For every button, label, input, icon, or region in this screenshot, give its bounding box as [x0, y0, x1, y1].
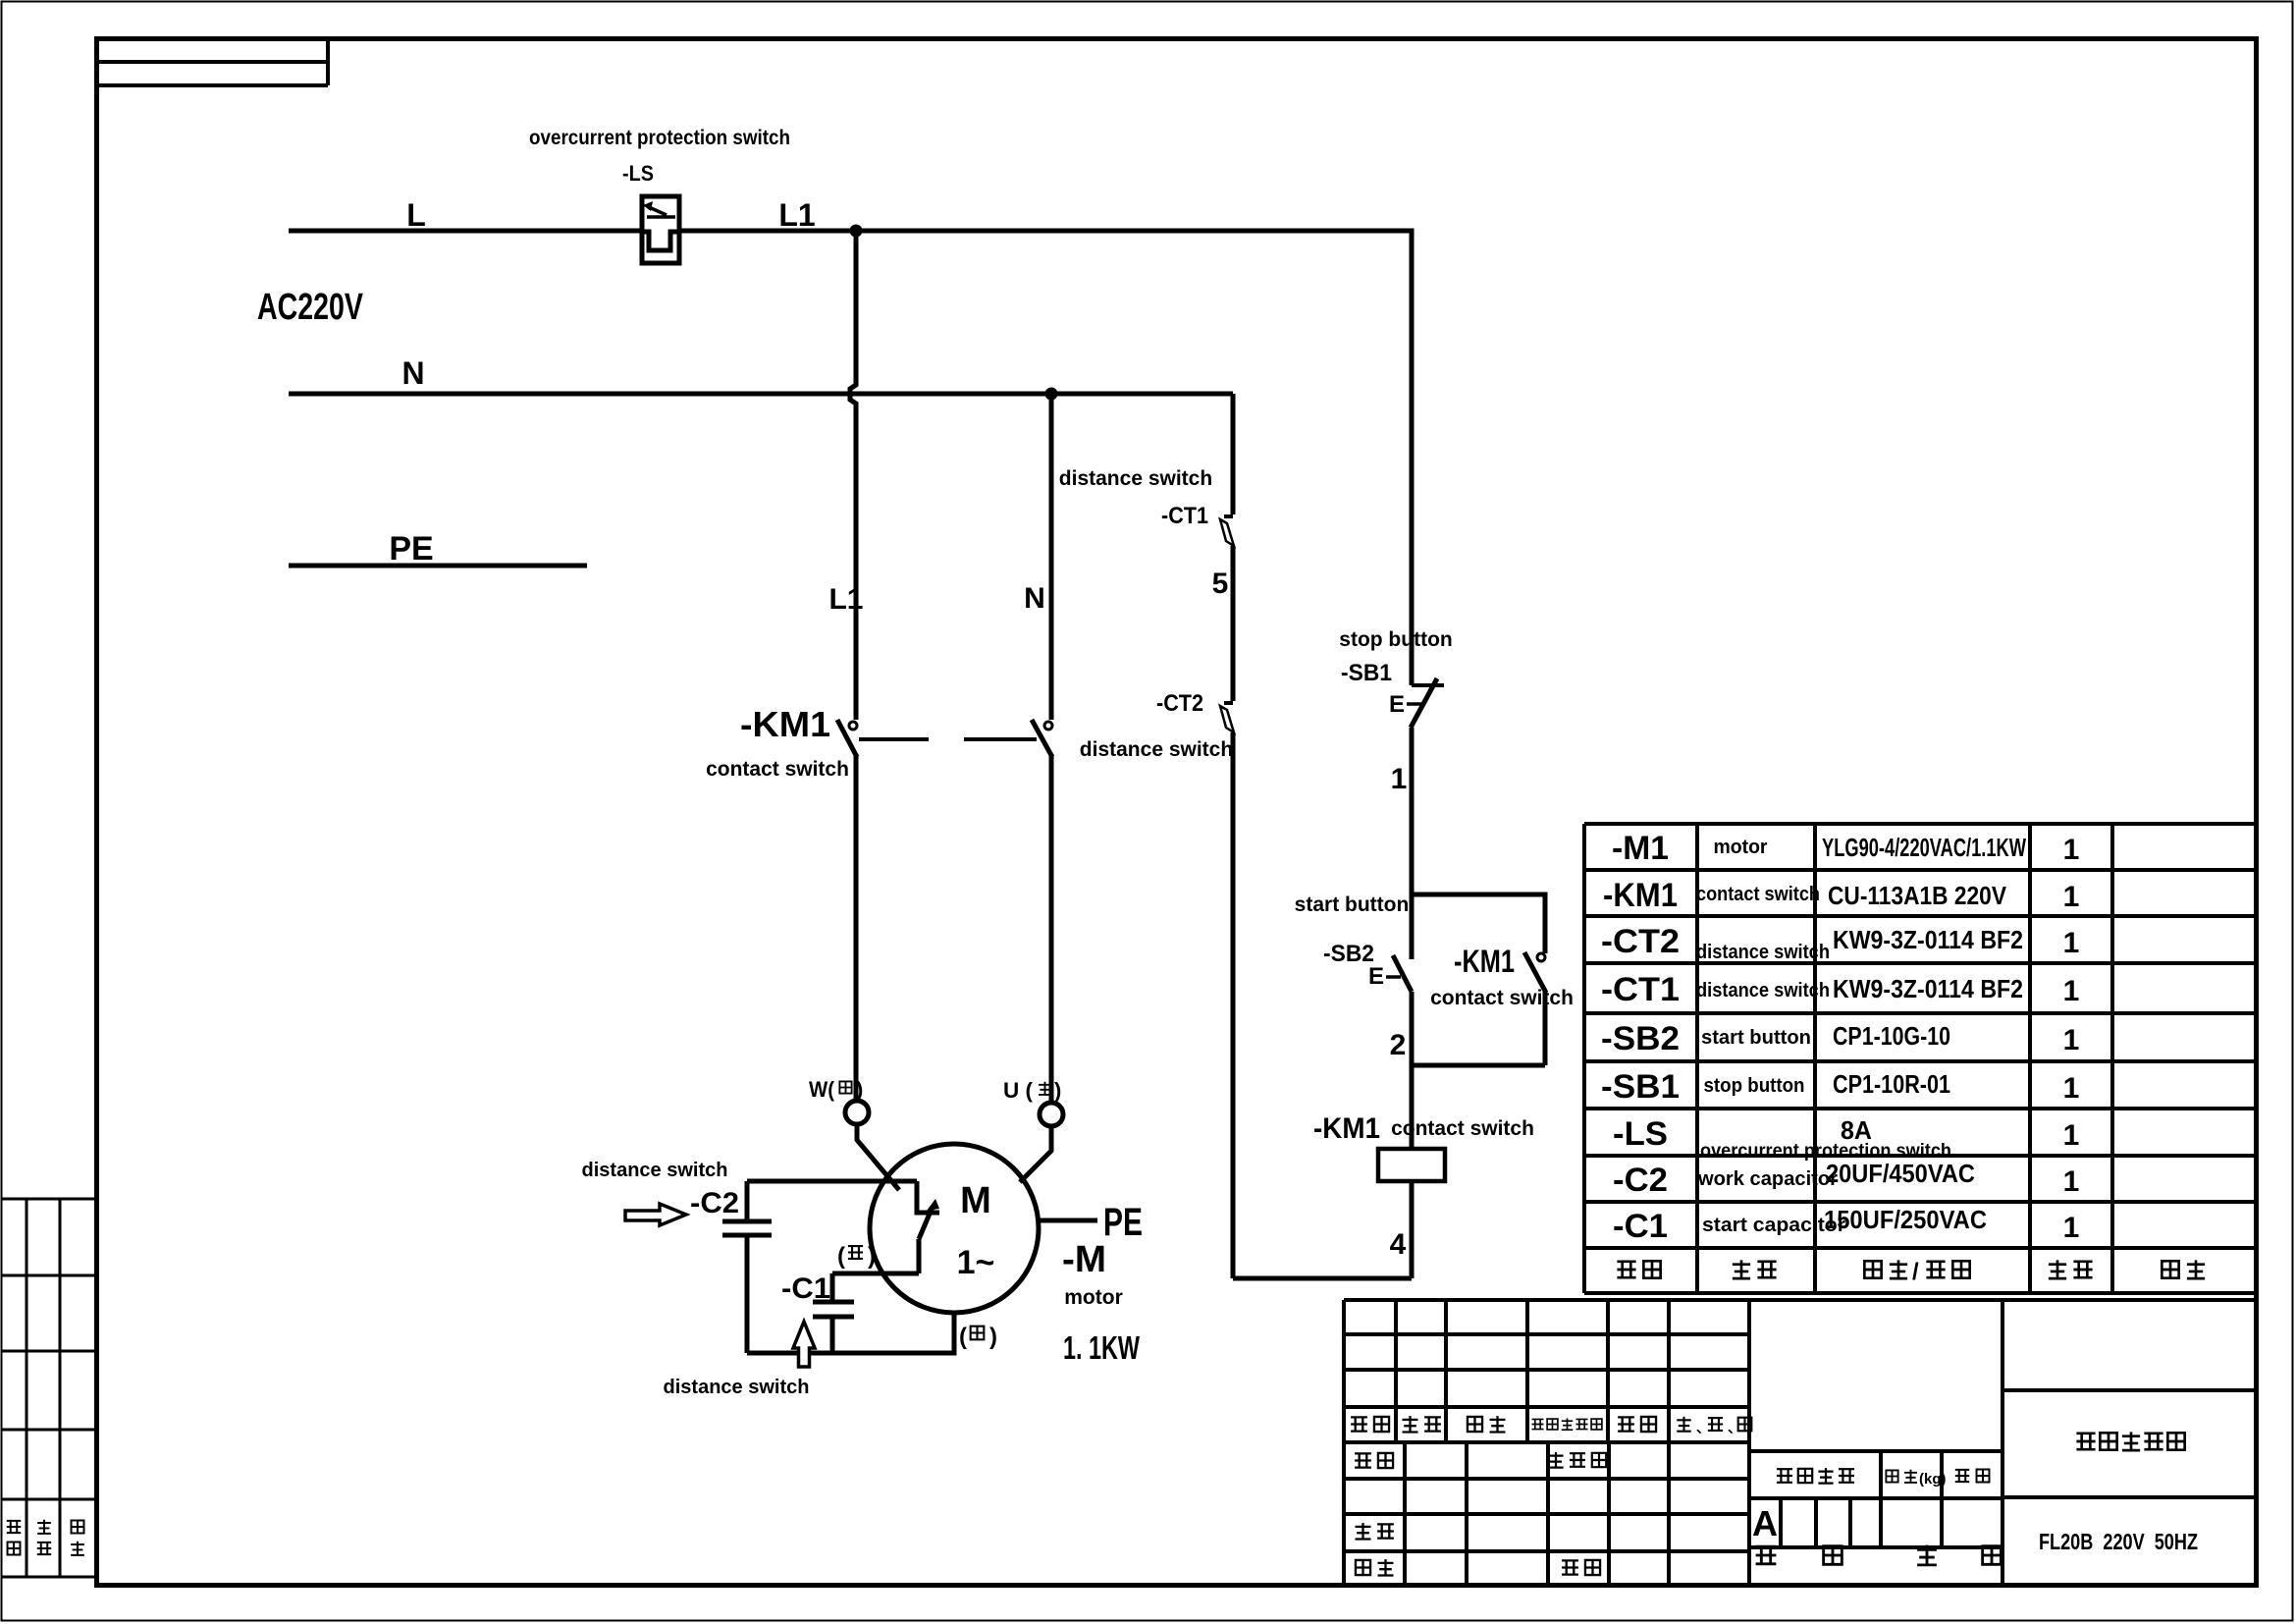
- junction N: [1045, 388, 1058, 401]
- svg-text:M: M: [960, 1180, 991, 1221]
- svg-text:E: E: [1389, 691, 1405, 718]
- svg-text:): ): [1054, 1078, 1061, 1103]
- svg-text:-C2: -C2: [690, 1187, 739, 1219]
- distance switch CT1 designator: [1161, 503, 1208, 529]
- BOM row -CT1: [1601, 971, 2079, 1008]
- svg-text:KW9-3Z-0114 BF2: KW9-3Z-0114 BF2: [1833, 925, 2023, 954]
- svg-text:contact switch: contact switch: [706, 758, 849, 781]
- svg-text:): ): [989, 1324, 997, 1350]
- stop button SB1 E label: [1389, 691, 1405, 718]
- wire CT1 to CT2: [1231, 546, 1236, 701]
- svg-text:1: 1: [2063, 1212, 2080, 1244]
- BOM header row: [1617, 1259, 2205, 1285]
- node 5 label: [1212, 568, 1229, 600]
- centrifugal switch: [917, 1181, 939, 1273]
- distance switch CT2 designator: [1156, 690, 1203, 717]
- svg-text:contact switch: contact switch: [1391, 1117, 1534, 1140]
- svg-text:distance switch: distance switch: [582, 1160, 728, 1181]
- svg-text:1: 1: [2063, 881, 2080, 913]
- terminal U: [1040, 1103, 1063, 1126]
- svg-text:E: E: [1368, 963, 1384, 990]
- svg-text:1: 1: [1391, 763, 1408, 795]
- node 1 label: [1391, 763, 1408, 795]
- svg-text:A: A: [1752, 1503, 1778, 1543]
- overcurrent protection switch label: [529, 127, 790, 149]
- svg-text:distance switch: distance switch: [664, 1377, 810, 1398]
- svg-text:20UF/450VAC: 20UF/450VAC: [1826, 1159, 1975, 1188]
- wire N neutral: [289, 392, 1233, 397]
- contactor KM1 coil designator: [1313, 1112, 1380, 1145]
- svg-text:CU-113A1B 220V: CU-113A1B 220V: [1828, 881, 2007, 910]
- drawing title 电气原理图: [2076, 1432, 2184, 1450]
- node 2 label: [1390, 1029, 1407, 1061]
- distance switch label (CT2): [1080, 738, 1233, 761]
- svg-text:stop button: stop button: [1339, 628, 1452, 651]
- wire coil to bottom rail: [1410, 1181, 1415, 1278]
- capacitor C1 designator: [781, 1272, 830, 1305]
- sheet count labels: [1756, 1545, 2002, 1565]
- svg-text:motor: motor: [1714, 837, 1768, 858]
- svg-text:1: 1: [2063, 927, 2080, 959]
- svg-text:CP1-10G-10: CP1-10G-10: [1833, 1021, 1950, 1051]
- wire N pole to U terminal: [1049, 755, 1054, 1103]
- breaker LS designator: [622, 161, 654, 186]
- contactor KM1 main contact L1 pole: [837, 720, 857, 757]
- terminal W: [845, 1101, 869, 1124]
- stop button SB1 designator: [1341, 660, 1392, 686]
- svg-text:W(: W(: [809, 1077, 835, 1102]
- svg-text:distance switch: distance switch: [1696, 980, 1830, 1001]
- terminal U label U(white): [1003, 1078, 1061, 1103]
- wire CT2 to bottom rail: [1231, 732, 1236, 1278]
- left strip rotated labels 专业/会签/日期: [7, 1520, 84, 1555]
- node L1 label (lower): [828, 583, 863, 616]
- terminal label (brown): [959, 1324, 997, 1350]
- distance switch label (CT1): [1059, 467, 1212, 490]
- start button SB2 designator: [1323, 941, 1374, 967]
- svg-text:PE: PE: [1103, 1201, 1143, 1244]
- svg-text:CP1-10R-01: CP1-10R-01: [1833, 1069, 1950, 1099]
- contact switch label (aux): [1430, 987, 1574, 1009]
- svg-text:-CT2: -CT2: [1156, 690, 1203, 717]
- stop button label: [1339, 628, 1452, 651]
- start button SB2: [1386, 894, 1412, 992]
- svg-text:N: N: [401, 355, 424, 391]
- svg-text:-CT1: -CT1: [1161, 503, 1208, 529]
- capacitor C1: [813, 1273, 854, 1353]
- contact switch label (main): [706, 758, 849, 781]
- svg-text:N: N: [1024, 582, 1045, 615]
- BOM row -M1: [1612, 830, 2079, 867]
- svg-text:YLG90-4/220VAC/1.1KW: YLG90-4/220VAC/1.1KW: [1822, 833, 2026, 862]
- wire control bottom rail: [1233, 1276, 1412, 1281]
- wire L1 pole to W terminal: [854, 755, 859, 1101]
- wire L phase: [289, 229, 856, 234]
- motor 1~ label: [957, 1244, 995, 1281]
- svg-text:-KM1: -KM1: [1454, 944, 1515, 979]
- svg-text:(kg): (kg): [1919, 1471, 1947, 1488]
- contactor KM1 aux designator: [1454, 944, 1515, 979]
- breaker LS: [642, 196, 679, 263]
- contactor KM1 main contact N pole: [1032, 720, 1052, 757]
- contact switch label (coil): [1391, 1117, 1534, 1140]
- stage mark A: [1752, 1503, 1778, 1543]
- svg-text:-CT2: -CT2: [1601, 923, 1680, 960]
- pointer arrow to C2: [625, 1204, 686, 1225]
- pointer arrow to C1: [793, 1322, 815, 1367]
- svg-text:): ): [868, 1243, 876, 1270]
- left margin signature strip: [2, 1199, 94, 1577]
- svg-text:1: 1: [2063, 1072, 2080, 1105]
- svg-text:-SB2: -SB2: [1323, 941, 1374, 967]
- wire capacitor bottom rail: [747, 1313, 954, 1353]
- distance switch label (C1): [664, 1377, 810, 1398]
- wire parallel branch top: [1412, 894, 1545, 953]
- wire W lead into motor: [857, 1124, 899, 1190]
- wire PE earth: [289, 564, 587, 568]
- svg-text:1: 1: [2063, 1024, 2080, 1056]
- wire L1 drop with hop over N: [850, 231, 856, 720]
- svg-text:-LS: -LS: [1613, 1115, 1668, 1153]
- svg-text:stop button: stop button: [1704, 1075, 1805, 1097]
- svg-text:contact switch: contact switch: [1430, 987, 1574, 1009]
- svg-text:1: 1: [2063, 1119, 2080, 1152]
- svg-text:5: 5: [1212, 568, 1229, 600]
- motor designator -M: [1062, 1239, 1106, 1280]
- distance switch label (C2): [582, 1160, 728, 1181]
- svg-text:overcurrent protection switch: overcurrent protection switch: [529, 127, 790, 149]
- BOM row -C1: [1613, 1205, 2079, 1245]
- BOM table grid: [1584, 824, 2256, 1293]
- wire SB2 to node 2: [1410, 992, 1415, 1149]
- svg-text:-SB1: -SB1: [1601, 1068, 1680, 1106]
- top-left revision strip: [96, 40, 328, 85]
- svg-text:2: 2: [1390, 1029, 1407, 1061]
- svg-text:distance switch: distance switch: [1080, 738, 1233, 761]
- svg-text:(: (: [959, 1324, 967, 1350]
- node N label (lower): [1024, 582, 1045, 615]
- BOM row -C2: [1613, 1159, 2079, 1199]
- svg-text:start button: start button: [1295, 893, 1410, 916]
- start button label: [1295, 893, 1410, 916]
- terminal label (black): [837, 1243, 876, 1270]
- BOM row -LS: [1613, 1115, 2079, 1162]
- BOM row -CT2: [1601, 923, 2079, 963]
- node PE label: [389, 530, 433, 568]
- start button SB2 E label: [1368, 963, 1384, 990]
- svg-text:-SB2: -SB2: [1601, 1020, 1680, 1057]
- wire N to CT branch: [1231, 394, 1236, 514]
- distance switch CT2: [1220, 703, 1234, 732]
- wire L1 to control branch: [856, 231, 1412, 685]
- mechanical linkage: [859, 737, 1037, 741]
- svg-text:start button: start button: [1701, 1027, 1811, 1049]
- svg-text:1~: 1~: [957, 1244, 995, 1281]
- svg-text:L: L: [406, 197, 426, 233]
- wire C1 to centrifugal switch: [832, 1272, 919, 1276]
- svg-text:distance switch: distance switch: [1059, 467, 1212, 490]
- BOM row -KM1: [1603, 877, 2079, 914]
- stop button SB1: [1407, 678, 1444, 728]
- svg-text:-M: -M: [1062, 1239, 1106, 1280]
- node L1 label (top): [778, 197, 815, 233]
- motor M label: [960, 1180, 991, 1221]
- svg-text:-SB1: -SB1: [1341, 660, 1392, 686]
- svg-text:distance switch: distance switch: [1696, 942, 1830, 963]
- title block signature labels: [1355, 1452, 1606, 1575]
- wire U lead into motor: [1020, 1126, 1051, 1182]
- svg-text:motor: motor: [1064, 1286, 1123, 1309]
- wire parallel branch bottom: [1412, 1063, 1545, 1068]
- contactor KM1 aux contact: [1524, 952, 1546, 1065]
- motor label: [1064, 1286, 1123, 1309]
- junction L1: [850, 225, 863, 238]
- svg-text:-KM1: -KM1: [740, 704, 830, 744]
- svg-text:work capacitor: work capacitor: [1697, 1168, 1838, 1190]
- svg-text:1: 1: [2063, 1165, 2080, 1198]
- svg-text:4: 4: [1390, 1228, 1407, 1261]
- svg-text:(: (: [837, 1243, 845, 1270]
- svg-text:contact switch: contact switch: [1696, 884, 1820, 905]
- capacitor C2 designator: [690, 1187, 739, 1219]
- svg-text:、: 、: [1696, 1420, 1710, 1435]
- wire PE stub: [1039, 1218, 1097, 1223]
- node N label: [401, 355, 424, 391]
- node PE label (motor): [1103, 1201, 1143, 1244]
- wire SB1 to node 1: [1410, 728, 1415, 894]
- svg-text:-C1: -C1: [1613, 1208, 1668, 1245]
- svg-text:-CT1: -CT1: [1601, 971, 1680, 1008]
- svg-text:PE: PE: [389, 530, 433, 568]
- node AC220V label: [257, 287, 363, 328]
- svg-text:/: /: [1912, 1259, 1919, 1285]
- svg-text:U (: U (: [1003, 1078, 1034, 1103]
- BOM row -SB1: [1601, 1068, 2079, 1106]
- svg-text:150UF/250VAC: 150UF/250VAC: [1824, 1205, 1987, 1234]
- terminal W label W(red): [809, 1077, 863, 1102]
- contactor KM1 designator (main): [740, 704, 830, 744]
- distance switch CT1: [1220, 516, 1234, 546]
- motor M1 body: [870, 1144, 1039, 1313]
- svg-text:L1: L1: [828, 583, 863, 616]
- motor power 1.1KW: [1063, 1329, 1141, 1366]
- svg-text:-KM1: -KM1: [1313, 1112, 1380, 1145]
- svg-text:KW9-3Z-0114 BF2: KW9-3Z-0114 BF2: [1833, 974, 2023, 1003]
- title block grid: [1344, 1300, 2256, 1588]
- svg-text:-M1: -M1: [1612, 830, 1669, 867]
- stage mark / weight / scale labels: [1777, 1468, 1989, 1488]
- wire capacitor top rail: [747, 1179, 917, 1184]
- svg-text:-KM1: -KM1: [1603, 877, 1678, 914]
- svg-text:-LS: -LS: [622, 161, 654, 186]
- svg-text:AC220V: AC220V: [257, 287, 363, 328]
- svg-text:、: 、: [1728, 1420, 1741, 1435]
- svg-text:1. 1KW: 1. 1KW: [1063, 1329, 1141, 1366]
- svg-text:-C2: -C2: [1613, 1162, 1668, 1199]
- drawing code FL20B 220V 50HZ: [2039, 1529, 2198, 1554]
- title block revision header labels: [1351, 1416, 1751, 1435]
- svg-text:1: 1: [2063, 975, 2080, 1007]
- BOM row -SB2: [1601, 1020, 2079, 1057]
- capacitor C2: [722, 1181, 772, 1353]
- svg-text:1: 1: [2063, 834, 2080, 866]
- svg-text:): ): [856, 1077, 863, 1102]
- wire N drop: [1049, 394, 1054, 720]
- contactor KM1 coil: [1378, 1149, 1445, 1181]
- node 4 label: [1390, 1228, 1407, 1261]
- svg-text:L1: L1: [778, 197, 815, 233]
- node L label: [406, 197, 426, 233]
- svg-text:FL20B 220V 50HZ: FL20B 220V 50HZ: [2039, 1529, 2198, 1554]
